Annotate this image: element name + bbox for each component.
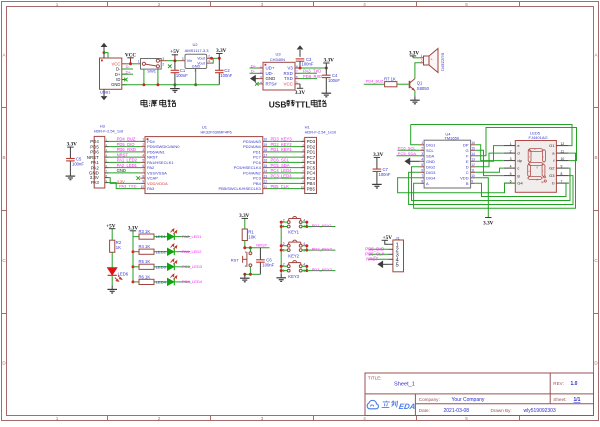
wire LED3 out	[175, 266, 191, 268]
svg-text:10: 10	[561, 157, 565, 161]
USB connector USB1	[100, 58, 122, 89]
svg-text:PD1: PD1	[253, 149, 262, 154]
junction LED rail 3	[132, 280, 135, 283]
svg-text:LED1: LED1	[156, 234, 167, 239]
wire DIG4 to G4 (bottom loop)	[398, 178, 516, 193]
svg-text:8: 8	[421, 180, 423, 184]
wire SDA	[397, 155, 420, 157]
svg-text:S8050: S8050	[417, 86, 430, 91]
svg-text:PD5: PD5	[90, 144, 99, 149]
wire B to b (bottom loop)	[475, 183, 569, 196]
svg-text:D+: D+	[126, 69, 132, 74]
svg-text:LED2: LED2	[156, 249, 167, 254]
svg-text:DIG1: DIG1	[426, 142, 436, 147]
wire KEY1 out	[307, 226, 336, 228]
svg-text:TITLE:: TITLE:	[368, 376, 382, 381]
svg-text:PA1: PA1	[91, 160, 100, 165]
svg-text:100nF: 100nF	[379, 172, 391, 177]
svg-text:PD3_KEY3: PD3_KEY3	[312, 267, 333, 272]
svg-text:9: 9	[142, 180, 144, 184]
svg-text:RTS#: RTS#	[266, 82, 278, 87]
svg-text:d: d	[517, 151, 519, 156]
junction +5V	[173, 59, 176, 62]
wire U1 pin18 to H1	[268, 151, 301, 153]
svg-text:11: 11	[264, 185, 268, 189]
wire D-	[122, 68, 133, 70]
ground (arrow, U3)	[251, 76, 255, 82]
svg-text:Sheet_1: Sheet_1	[394, 382, 415, 388]
svg-text:PD2: PD2	[307, 144, 316, 149]
svg-text:PA3: PA3	[91, 180, 100, 185]
wire shield hook	[104, 53, 108, 58]
svg-text:PA1_LED2: PA1_LED2	[117, 158, 138, 163]
wire KEY2 pin2	[281, 245, 287, 247]
pushbutton RST	[249, 248, 251, 252]
svg-text:100nF: 100nF	[176, 73, 188, 78]
svg-text:PD3_KEY3: PD3_KEY3	[271, 137, 293, 142]
wire E to e	[475, 146, 504, 162]
wire J1 pin3	[369, 253, 389, 255]
wire U1 pin15 to H1	[268, 167, 301, 169]
svg-text:3: 3	[421, 152, 423, 156]
svg-text:REV:: REV:	[553, 381, 564, 386]
wire U1 pin12 to H1	[268, 182, 301, 184]
wire H3-PA2_LED1	[109, 167, 141, 169]
wire rail to R4	[133, 251, 139, 253]
svg-text:PC6: PC6	[253, 160, 262, 165]
svg-text:16: 16	[471, 141, 475, 145]
svg-text:USB1: USB1	[100, 90, 111, 95]
svg-text:UD+: UD+	[266, 66, 275, 71]
junction R1/NRST	[243, 246, 246, 249]
resistor R4	[139, 249, 154, 254]
svg-text:PC5_SDA: PC5_SDA	[398, 151, 417, 156]
wire DIG1 to G1 (top loop)	[411, 125, 572, 146]
svg-text:15: 15	[264, 164, 268, 168]
junction	[305, 244, 308, 247]
wire A to a (bottom loop)	[414, 153, 576, 208]
svg-text:2: 2	[158, 2, 161, 7]
svg-text:B: B	[466, 181, 469, 186]
wire TXD	[300, 78, 317, 80]
junction 3.3V out	[218, 57, 221, 60]
svg-text:PB5/SWCLK/HSECLK3: PB5/SWCLK/HSECLK3	[219, 186, 262, 191]
svg-text:PD3/AIN3: PD3/AIN3	[243, 139, 262, 144]
junction	[305, 249, 308, 252]
junction rail KEY3 top	[280, 265, 283, 268]
svg-text:PD5_DIO: PD5_DIO	[117, 142, 136, 147]
svg-text:KEY3: KEY3	[288, 274, 299, 279]
USB1 shield stem bottom	[103, 89, 105, 96]
svg-text:GND: GND	[192, 65, 201, 69]
junction C1 gnd	[173, 83, 176, 86]
wire H3-PA1_LED2	[109, 161, 141, 163]
svg-text:G2: G2	[549, 166, 555, 171]
svg-text:R4 1K: R4 1K	[139, 244, 151, 249]
svg-text:1/1: 1/1	[574, 397, 581, 403]
svg-text:3: 3	[510, 157, 512, 161]
LCEDA logo	[367, 400, 378, 408]
capacitor C4	[322, 68, 331, 89]
svg-text:PD1: PD1	[307, 150, 316, 155]
svg-text:PC3: PC3	[307, 176, 316, 181]
pushbutton KEY3	[287, 261, 302, 272]
ground (keys)	[276, 274, 286, 282]
svg-text:PD6/AIN1: PD6/AIN1	[147, 149, 166, 154]
svg-text:PC3_LED3: PC3_LED3	[271, 173, 293, 178]
ground (arrow, U4)	[405, 158, 409, 164]
svg-text:1K: 1K	[116, 245, 121, 250]
SW1 pin 3	[160, 60, 167, 62]
ground (arrow, J1)	[378, 261, 382, 267]
svg-text:c: c	[517, 166, 519, 171]
power flag bars	[67, 54, 491, 241]
shield arrow (bottom)	[101, 96, 108, 100]
svg-text:PA1_LED2: PA1_LED2	[182, 249, 202, 254]
wire NRST node	[245, 247, 270, 249]
svg-text:3.3V: 3.3V	[483, 221, 493, 227]
wire H3-GND	[109, 172, 141, 174]
wire KEY3 right tie	[302, 266, 307, 270]
svg-text:GND: GND	[111, 82, 120, 87]
svg-text:Q1: Q1	[417, 81, 423, 86]
svg-text:VCC: VCC	[284, 82, 293, 87]
svg-text:10: 10	[141, 185, 145, 189]
svg-text:PB4: PB4	[253, 181, 261, 186]
no-connect on ID	[124, 78, 128, 82]
svg-text:3: 3	[261, 2, 264, 7]
wire RST gnd rail	[245, 273, 261, 275]
svg-text:1: 1	[142, 138, 144, 142]
wire SW1 to U2 Vin	[167, 60, 181, 62]
svg-text:UD-: UD-	[266, 71, 274, 76]
svg-text:Vin: Vin	[187, 59, 192, 63]
wire to speaker pin1	[413, 57, 420, 59]
svg-text:4: 4	[363, 416, 366, 421]
svg-text:D-: D-	[251, 69, 256, 74]
svg-text:PC3: PC3	[253, 176, 262, 181]
svg-text:PA3_TXD: PA3_TXD	[119, 184, 137, 189]
7-segment glyph	[528, 149, 547, 182]
svg-text:PD3: PD3	[307, 139, 316, 144]
svg-text:PC7: PC7	[307, 155, 316, 160]
U3 GND arrow	[253, 78, 258, 80]
svg-text:PA3_TXD: PA3_TXD	[303, 69, 321, 74]
ground (power rail)	[170, 85, 180, 93]
svg-text:NRST: NRST	[87, 155, 99, 160]
wire U1 pin11 to H1	[268, 188, 301, 190]
resistor R2	[110, 240, 115, 252]
wire R4 to LED2	[154, 251, 168, 253]
wire ground rail	[122, 84, 220, 86]
svg-text:10K: 10K	[248, 235, 256, 240]
svg-text:5: 5	[396, 263, 399, 269]
wire KEY1 pin2	[281, 221, 287, 223]
wire UD+	[250, 67, 259, 69]
junction rail KEY1 top	[280, 221, 283, 224]
svg-text:PA2_LED1: PA2_LED1	[182, 234, 202, 239]
LED LED3	[168, 263, 175, 270]
svg-text:PD2_KEY2: PD2_KEY2	[312, 247, 333, 252]
svg-text:NRST: NRST	[256, 243, 267, 248]
svg-text:LED3: LED3	[156, 264, 167, 269]
wire H3 3.3V to VDD	[109, 178, 141, 184]
svg-text:PD1_KEY1: PD1_KEY1	[312, 223, 333, 228]
svg-text:PC5/HSECLK4: PC5/HSECLK4	[234, 165, 262, 170]
svg-text:3: 3	[261, 416, 264, 421]
svg-text:TXD: TXD	[284, 76, 293, 81]
wire UD-	[250, 72, 259, 74]
svg-text:2: 2	[162, 63, 164, 67]
wire LED1 out	[175, 236, 191, 238]
capacitor C5	[66, 150, 75, 172]
wire R6 to LED4	[154, 281, 168, 283]
shield arrow (top)	[101, 43, 108, 47]
junction Vout	[210, 57, 213, 60]
svg-text:PD5/SWDIO/AIN0: PD5/SWDIO/AIN0	[147, 144, 180, 149]
svg-text:1: 1	[421, 54, 423, 58]
wire KEY3 out	[307, 270, 336, 272]
junction RST bottom	[249, 273, 252, 276]
svg-text:PB4: PB4	[307, 181, 316, 186]
svg-text:3.3V: 3.3V	[295, 90, 305, 96]
svg-text:E: E	[466, 159, 469, 164]
svg-text:Drawn By:: Drawn By:	[491, 408, 512, 413]
junction gnd rail	[243, 273, 246, 276]
svg-text:1: 1	[138, 60, 140, 64]
wire U1 pin14 to H1	[268, 172, 301, 174]
svg-text:PD2/AIN4: PD2/AIN4	[243, 144, 262, 149]
wire U1 pin19 to H1	[268, 146, 301, 148]
wire KEY2 out	[307, 249, 336, 251]
svg-text:2021-03-08: 2021-03-08	[444, 408, 470, 414]
wire speaker to Q1 collector	[415, 63, 420, 79]
svg-text:11: 11	[471, 169, 475, 173]
LED LED5	[108, 268, 117, 276]
svg-text:NRST: NRST	[117, 152, 129, 157]
svg-text:DIG2: DIG2	[426, 164, 436, 169]
junction	[305, 265, 308, 268]
wire DIG1 up	[411, 125, 420, 145]
wire KEY2 right tie	[302, 246, 307, 250]
svg-text:9: 9	[561, 164, 563, 168]
SW1 mount drops	[143, 69, 145, 85]
svg-text:dp: dp	[517, 158, 522, 163]
svg-text:DIG3: DIG3	[426, 170, 436, 175]
wire U1 pin20 to H1	[268, 140, 301, 142]
wire F to f (top loop)	[475, 128, 576, 161]
svg-text:USB: USB	[269, 99, 287, 109]
switch SW1	[141, 59, 162, 70]
svg-text:Company:: Company:	[419, 397, 440, 402]
junction rail KEY2 bottom	[280, 249, 283, 252]
svg-text:A: A	[426, 181, 429, 186]
wire DIG2 to G2 (bottom loop)	[412, 167, 571, 201]
svg-text:PC7: PC7	[253, 155, 262, 160]
junction	[305, 221, 308, 224]
svg-text:5: 5	[142, 159, 144, 163]
junction LED rail 2	[132, 265, 135, 268]
svg-text:D+: D+	[251, 63, 257, 68]
svg-text:18: 18	[264, 148, 268, 152]
svg-text:4: 4	[421, 158, 423, 162]
svg-text:4: 4	[142, 153, 144, 157]
pushbutton KEY2	[287, 240, 302, 251]
svg-text:AMS1117-3.3: AMS1117-3.3	[185, 48, 210, 53]
svg-text:Your Company: Your Company	[452, 397, 485, 403]
LED LED2	[168, 248, 175, 255]
svg-text:KEY1: KEY1	[288, 230, 299, 235]
svg-text:PD4_BUZ: PD4_BUZ	[117, 137, 136, 142]
junction LED rail 1	[132, 250, 135, 253]
wire J1 pin2	[369, 248, 389, 250]
svg-text:20: 20	[264, 138, 268, 142]
ground (Q1)	[410, 96, 420, 104]
svg-text:GND: GND	[426, 159, 435, 164]
wire rail to R5	[133, 266, 139, 268]
svg-text:HDR-F-2.54_1x10: HDR-F-2.54_1x10	[305, 130, 337, 135]
wire U2 gnd	[195, 71, 197, 85]
svg-text:2: 2	[510, 149, 512, 153]
svg-text:PA2: PA2	[147, 165, 155, 170]
wire U1 pin13 to H1	[268, 177, 301, 179]
svg-text:5: 5	[421, 163, 423, 167]
title block	[365, 373, 594, 416]
junction	[305, 225, 308, 228]
wire KEY3 pin1	[281, 270, 287, 272]
wire SCL	[398, 149, 420, 151]
junction rail KEY1 bottom	[280, 225, 283, 228]
wire LED4 out	[175, 281, 191, 283]
resistor R5	[139, 264, 154, 269]
junction VCC	[129, 62, 132, 65]
wire H3-PD5_DIO	[109, 146, 141, 148]
svg-text:PC4/AIN2: PC4/AIN2	[243, 170, 262, 175]
wire U1 pin17 to H1	[268, 156, 301, 158]
wire 3.3V LED rail	[132, 231, 134, 282]
svg-text:B: B	[594, 155, 597, 160]
svg-text:1: 1	[510, 142, 512, 146]
svg-text:B: B	[2, 155, 5, 160]
svg-text:12: 12	[561, 142, 565, 146]
U2 pin stubs	[180, 58, 212, 71]
junction	[156, 83, 159, 86]
svg-text:NRST: NRST	[147, 155, 158, 160]
svg-text:VDD/VDDA: VDD/VDDA	[147, 181, 168, 186]
svg-text:100nF: 100nF	[302, 61, 314, 66]
svg-text:14: 14	[471, 152, 475, 156]
svg-text:1: 1	[421, 141, 423, 145]
capacitor C3 + shield top	[299, 50, 301, 57]
svg-text:G3: G3	[549, 173, 555, 178]
resistor R1	[242, 229, 247, 241]
svg-text:SW1: SW1	[147, 69, 156, 74]
svg-text:4: 4	[363, 2, 366, 7]
transistor Q1 S8050	[410, 79, 415, 91]
no-connect VCAP	[136, 176, 140, 180]
svg-text:14: 14	[264, 169, 268, 173]
J1 pin5 ground arrow	[382, 263, 389, 265]
svg-text:DP: DP	[463, 142, 469, 147]
ground (C5)	[66, 172, 76, 180]
svg-text:10: 10	[471, 174, 475, 178]
wire rail to R3	[133, 236, 139, 238]
svg-text:17: 17	[264, 153, 268, 157]
svg-text:PD1_KEY1: PD1_KEY1	[271, 147, 293, 152]
junction shield	[103, 51, 106, 54]
svg-text:PC5: PC5	[307, 165, 316, 170]
speaker BUZZER1	[424, 49, 439, 73]
svg-text:6: 6	[421, 169, 423, 173]
svg-text:PA3: PA3	[147, 186, 155, 191]
wire KEY1 pin1	[281, 226, 287, 228]
wire C to c	[475, 168, 504, 172]
svg-text:1: 1	[56, 2, 59, 7]
ground (LED5)	[107, 286, 117, 294]
junction	[142, 83, 145, 86]
svg-text:PA1/HSECLK1: PA1/HSECLK1	[147, 160, 174, 165]
pushbutton KEY1	[287, 217, 302, 228]
junction 3.3V/C4	[325, 67, 328, 70]
wire emitter	[414, 91, 416, 97]
junction RST top	[249, 246, 252, 249]
svg-text:LED6: LED6	[118, 272, 129, 277]
svg-text:PC4_LED4: PC4_LED4	[182, 279, 203, 284]
svg-text:U2: U2	[193, 42, 199, 47]
wire D+	[122, 73, 133, 75]
svg-text:D-: D-	[116, 67, 121, 72]
svg-text:7: 7	[561, 179, 563, 183]
wire G to g	[475, 150, 504, 175]
wire H3 PA3 to U1	[109, 183, 141, 189]
capacitor C2	[215, 58, 224, 84]
svg-text:5: 5	[510, 172, 512, 176]
svg-text:wly519092303: wly519092303	[524, 408, 556, 414]
svg-text:PA2_LED1: PA2_LED1	[117, 163, 138, 168]
svg-text:Date:: Date:	[419, 408, 430, 413]
svg-text:RST: RST	[231, 258, 240, 263]
wire KEY1 right tie	[302, 222, 307, 226]
USB1 shield stem top	[103, 47, 105, 58]
svg-text:15: 15	[471, 147, 475, 151]
no-connect RTS#	[255, 82, 259, 86]
svg-text:PB5: PB5	[307, 186, 316, 191]
junction U2 gnd	[194, 83, 197, 86]
svg-text:D: D	[466, 164, 469, 169]
svg-text:PC4_LED4: PC4_LED4	[271, 168, 293, 173]
svg-text:GND: GND	[266, 76, 276, 81]
svg-text:CH340N: CH340N	[270, 57, 285, 62]
wire PD4_BUZ	[364, 83, 385, 85]
svg-text:16: 16	[264, 159, 268, 163]
svg-text:VCAP: VCAP	[147, 176, 158, 181]
svg-text:G: G	[465, 148, 468, 153]
svg-text:8: 8	[561, 172, 563, 176]
wire RXD	[300, 72, 317, 74]
junction rail KEY3 bottom	[280, 269, 283, 272]
svg-text:HDR-F-2.54_1x9: HDR-F-2.54_1x9	[94, 128, 123, 133]
svg-text:PC6_SCL: PC6_SCL	[271, 158, 290, 163]
svg-text:Sheet:: Sheet:	[553, 397, 566, 402]
svg-text:1: 1	[56, 416, 59, 421]
svg-text:PD6: PD6	[90, 150, 99, 155]
svg-text:TTL: TTL	[295, 99, 310, 109]
LED LED4	[168, 279, 175, 286]
svg-text:G1: G1	[549, 143, 555, 148]
svg-text:V3: V3	[287, 66, 293, 71]
svg-text:R7 1K: R7 1K	[384, 77, 396, 82]
svg-text:2: 2	[158, 416, 161, 421]
